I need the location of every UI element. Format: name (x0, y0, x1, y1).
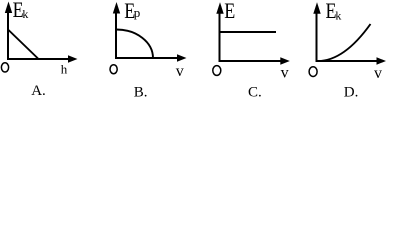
graph D y label Ek (326, 0, 342, 23)
graph B y label Ep (124, 0, 140, 23)
svg-text:v: v (176, 63, 184, 80)
graph A y label Ek (13, 0, 29, 22)
graph B curve Ep vs v (quarter ellipse) (117, 30, 154, 59)
svg-text:v: v (374, 65, 382, 82)
graph A line Ek vs h (descending) (9, 30, 39, 59)
svg-text:k: k (22, 7, 28, 21)
svg-text:k: k (335, 9, 341, 23)
graph C constant E line (220, 31, 276, 33)
svg-text:C.: C. (248, 84, 262, 100)
svg-text:D.: D. (344, 84, 359, 100)
graph C y-axis (216, 2, 223, 62)
graph D origin O (309, 67, 317, 77)
graph B x-axis (115, 54, 187, 61)
graph D y-axis (313, 2, 320, 62)
graph D curve Ek vs v (parabola) (318, 24, 371, 61)
graph A origin O (1, 63, 8, 72)
svg-text:E: E (224, 0, 235, 23)
graph B origin O (110, 65, 117, 74)
svg-text:B.: B. (134, 84, 148, 100)
graph C origin O (213, 66, 221, 76)
graph D x-axis (316, 57, 387, 64)
graph B y-axis (113, 2, 120, 59)
svg-text:A.: A. (31, 83, 46, 99)
graph C x-axis (219, 57, 290, 64)
svg-text:v: v (281, 65, 289, 82)
graph A y-axis (5, 2, 12, 61)
graph A x-axis (7, 55, 78, 62)
svg-text:p: p (134, 5, 141, 20)
svg-text:h: h (61, 62, 68, 77)
